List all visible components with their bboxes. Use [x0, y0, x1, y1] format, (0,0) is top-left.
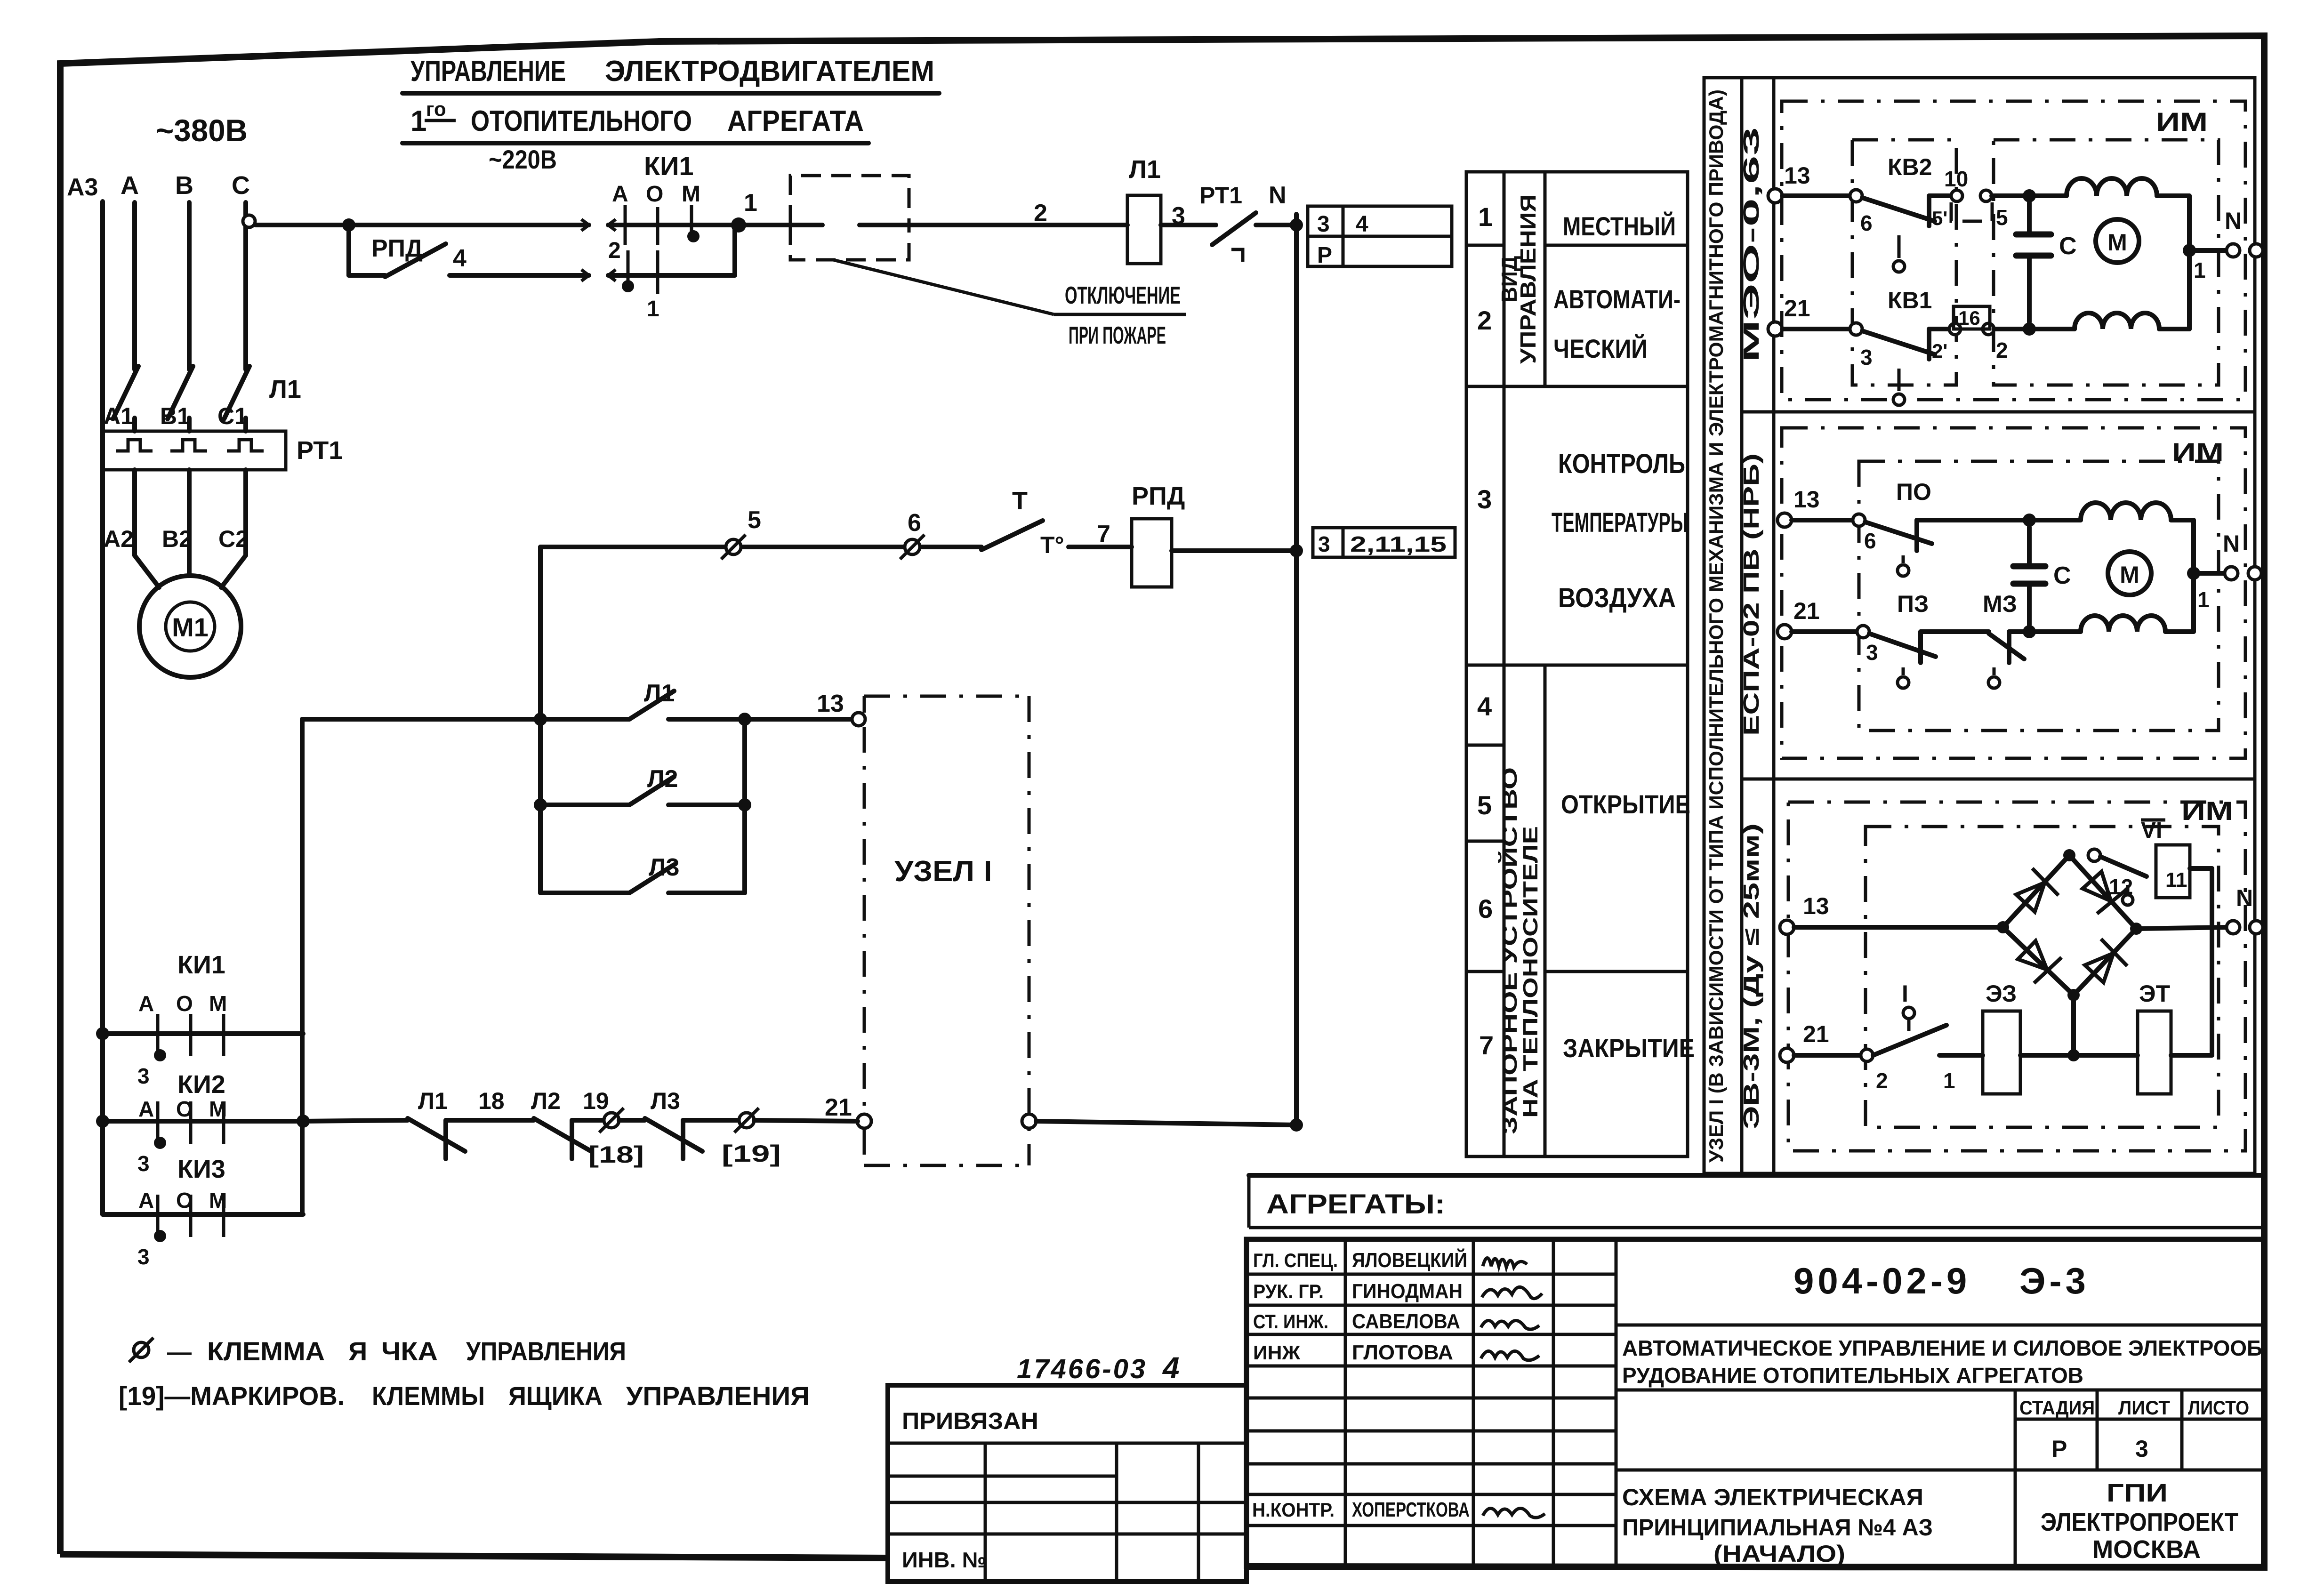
svg-text:ПРИ ПОЖАРЕ: ПРИ ПОЖАРЕ — [1069, 322, 1166, 349]
svg-text:Л3: Л3 — [651, 1088, 680, 1114]
svg-text:1: 1 — [2197, 587, 2210, 612]
svg-text:ЧЕСКИЙ: ЧЕСКИЙ — [1553, 334, 1648, 363]
svg-text:904-02-9: 904-02-9 — [1793, 1260, 1970, 1301]
svg-text:4: 4 — [1162, 1351, 1180, 1385]
svg-text:В2: В2 — [162, 526, 192, 552]
svg-text:(НАЧАЛО): (НАЧАЛО) — [1713, 1541, 1845, 1567]
svg-text:КИ3: КИ3 — [177, 1155, 225, 1183]
svg-text:2: 2 — [1477, 305, 1492, 335]
svg-text:УПРАВЛЕНИЯ: УПРАВЛЕНИЯ — [466, 1336, 626, 1366]
svg-text:ОТКРЫТИЕ: ОТКРЫТИЕ — [1561, 789, 1690, 819]
svg-text:4: 4 — [1356, 212, 1368, 237]
svg-text:21: 21 — [1793, 598, 1820, 624]
svg-text:5: 5 — [1996, 205, 2008, 230]
svg-text:2: 2 — [1876, 1068, 1888, 1093]
svg-text:ЛИСТО: ЛИСТО — [2188, 1397, 2249, 1419]
svg-text:3: 3 — [137, 1245, 150, 1269]
svg-text:УПРАВЛЕНИЕ: УПРАВЛЕНИЕ — [410, 55, 566, 88]
svg-text:N: N — [2236, 885, 2253, 911]
svg-text:Р: Р — [1317, 243, 1332, 268]
svg-text:КОНТРОЛЬ: КОНТРОЛЬ — [1558, 449, 1685, 479]
svg-text:13: 13 — [1793, 486, 1820, 513]
svg-text:ИМ: ИМ — [2181, 796, 2233, 826]
svg-text:го: го — [426, 98, 446, 120]
svg-text:Л1: Л1 — [269, 375, 301, 403]
svg-text:МЕСТНЫЙ: МЕСТНЫЙ — [1563, 211, 1676, 241]
svg-text:7: 7 — [1097, 521, 1110, 548]
svg-text:1: 1 — [744, 189, 757, 217]
svg-text:1: 1 — [2194, 258, 2206, 282]
svg-text:2,11,15: 2,11,15 — [1350, 532, 1447, 556]
svg-text:—: — — [167, 1339, 192, 1366]
svg-text:АГРЕГАТЫ:: АГРЕГАТЫ: — [1266, 1189, 1445, 1220]
svg-text:3: 3 — [2135, 1436, 2148, 1462]
svg-text:С: С — [232, 171, 250, 200]
svg-text:С2: С2 — [218, 526, 249, 552]
svg-text:А: А — [138, 1097, 154, 1121]
svg-text:КИ2: КИ2 — [177, 1070, 225, 1099]
svg-text:Т: Т — [1012, 487, 1028, 515]
svg-text:10: 10 — [1944, 167, 1968, 191]
svg-text:[19]—МАРКИРОВ.: [19]—МАРКИРОВ. — [119, 1381, 345, 1411]
svg-text:2: 2 — [1996, 338, 2008, 362]
svg-text:УЗЕЛ I (В ЗАВИСИМОСТИ ОТ ТИПА: УЗЕЛ I (В ЗАВИСИМОСТИ ОТ ТИПА ИСПОЛНИТЕЛ… — [1705, 89, 1727, 1163]
svg-text:А: А — [121, 171, 139, 200]
svg-text:5': 5' — [1932, 207, 1947, 229]
svg-text:4: 4 — [453, 245, 466, 272]
svg-text:ГПИ: ГПИ — [2107, 1479, 2168, 1507]
svg-text:6: 6 — [1860, 211, 1873, 235]
svg-text:М: М — [682, 182, 700, 207]
svg-text:КВ1: КВ1 — [1888, 287, 1932, 313]
svg-text:11: 11 — [2165, 868, 2187, 891]
svg-text:~380В: ~380В — [156, 113, 248, 148]
svg-text:I: I — [1902, 980, 1908, 1007]
svg-text:Л1: Л1 — [1129, 155, 1161, 184]
svg-text:ЗАКРЫТИЕ: ЗАКРЫТИЕ — [1563, 1033, 1695, 1063]
svg-text:О: О — [176, 991, 193, 1016]
svg-text:Я: Я — [348, 1336, 367, 1366]
svg-text:МЗ: МЗ — [1983, 591, 2017, 617]
svg-text:АГРЕГАТА: АГРЕГАТА — [727, 105, 864, 137]
svg-text:УПРАВЛЕНИЯ: УПРАВЛЕНИЯ — [1516, 194, 1540, 364]
svg-text:5: 5 — [1477, 790, 1492, 820]
svg-text:ХОПЕРСТКОВА: ХОПЕРСТКОВА — [1352, 1498, 1470, 1521]
svg-text:КВ2: КВ2 — [1888, 154, 1932, 180]
svg-text:УЗЕЛ: УЗЕЛ — [894, 855, 974, 888]
svg-text:РТ1: РТ1 — [297, 436, 343, 465]
svg-text:А: А — [138, 1188, 154, 1213]
svg-text:С: С — [2053, 562, 2071, 589]
svg-text:М: М — [209, 991, 227, 1016]
svg-text:2: 2 — [1034, 200, 1047, 227]
svg-text:ЗАПОРНОЕ УСТРОЙСТВО: ЗАПОРНОЕ УСТРОЙСТВО — [1497, 767, 1521, 1134]
svg-text:Э-3: Э-3 — [2019, 1260, 2090, 1301]
svg-text:АВТОМАТИЧЕСКОЕ УПРАВЛЕНИЕ И СИ: АВТОМАТИЧЕСКОЕ УПРАВЛЕНИЕ И СИЛОВОЕ ЭЛЕК… — [1622, 1336, 2262, 1360]
svg-text:3: 3 — [1317, 212, 1330, 237]
svg-text:КИ1: КИ1 — [177, 951, 225, 979]
svg-text:С1: С1 — [217, 403, 248, 429]
svg-text:[18]: [18] — [588, 1141, 644, 1168]
svg-text:17466-03: 17466-03 — [1017, 1354, 1147, 1384]
svg-text:ГИНОДМАН: ГИНОДМАН — [1352, 1280, 1463, 1303]
svg-text:ПРИНЦИПИАЛЬНАЯ №4 АЗ: ПРИНЦИПИАЛЬНАЯ №4 АЗ — [1622, 1514, 1933, 1541]
svg-text:[19]: [19] — [722, 1140, 781, 1167]
svg-text:Л1: Л1 — [418, 1088, 448, 1114]
svg-text:3: 3 — [1866, 640, 1878, 665]
svg-text:3: 3 — [137, 1151, 150, 1176]
svg-text:ЭТ: ЭТ — [2139, 980, 2170, 1007]
svg-text:РПД: РПД — [1132, 482, 1185, 510]
svg-text:2': 2' — [1932, 340, 1947, 362]
svg-text:ИНВ. №: ИНВ. № — [902, 1548, 987, 1572]
svg-text:ЯЛОВЕЦКИЙ: ЯЛОВЕЦКИЙ — [1352, 1248, 1467, 1272]
svg-text:КЛЕММЫ: КЛЕММЫ — [372, 1381, 485, 1411]
svg-text:19: 19 — [583, 1088, 609, 1114]
svg-text:СХЕМА ЭЛЕКТРИЧЕСКАЯ: СХЕМА ЭЛЕКТРИЧЕСКАЯ — [1622, 1484, 1923, 1510]
svg-text:~220В: ~220В — [489, 145, 557, 174]
svg-text:3: 3 — [1860, 345, 1873, 369]
svg-text:ЭВ-3М, (Ду ≤ 25мм): ЭВ-3М, (Ду ≤ 25мм) — [1739, 823, 1763, 1129]
svg-text:1: 1 — [1478, 202, 1493, 232]
svg-text:ТЕМПЕРАТУРЫ: ТЕМПЕРАТУРЫ — [1552, 507, 1688, 538]
svg-text:4: 4 — [1477, 691, 1492, 721]
svg-text:I: I — [984, 855, 992, 888]
svg-text:В: В — [175, 171, 193, 200]
svg-text:ИНЖ: ИНЖ — [1253, 1341, 1301, 1364]
svg-text:РУК. ГР.: РУК. ГР. — [1253, 1280, 1324, 1302]
svg-text:16: 16 — [1958, 307, 1980, 329]
svg-text:СТАДИЯ: СТАДИЯ — [2019, 1397, 2095, 1419]
svg-text:21: 21 — [1803, 1021, 1829, 1047]
svg-text:Л2: Л2 — [531, 1088, 561, 1114]
svg-text:А1: А1 — [104, 403, 134, 429]
svg-text:6: 6 — [1478, 894, 1493, 923]
svg-text:13: 13 — [817, 690, 844, 717]
svg-text:А: А — [138, 991, 154, 1016]
svg-text:О: О — [646, 182, 663, 207]
svg-text:А: А — [612, 182, 628, 207]
svg-text:М: М — [2120, 562, 2139, 588]
svg-text:3: 3 — [1477, 484, 1492, 514]
svg-text:А2: А2 — [104, 526, 134, 552]
svg-text:В1: В1 — [160, 403, 190, 429]
svg-text:ГЛОТОВА: ГЛОТОВА — [1352, 1341, 1453, 1364]
svg-text:ВОЗДУХА: ВОЗДУХА — [1558, 583, 1676, 613]
svg-text:3: 3 — [137, 1064, 150, 1088]
svg-text:Л2: Л2 — [647, 765, 678, 793]
svg-text:ЛИСТ: ЛИСТ — [2118, 1397, 2170, 1419]
svg-text:ЧКА: ЧКА — [381, 1336, 438, 1366]
svg-text:М: М — [2107, 229, 2127, 256]
svg-text:N: N — [2225, 208, 2242, 234]
svg-text:N: N — [2223, 530, 2240, 557]
svg-text:21: 21 — [825, 1094, 852, 1121]
svg-text:ИМ: ИМ — [2156, 107, 2208, 137]
svg-text:ЭЛЕКТРОПРОЕКТ: ЭЛЕКТРОПРОЕКТ — [2041, 1508, 2238, 1536]
svg-text:7: 7 — [1479, 1030, 1494, 1060]
svg-text:ПРИВЯЗАН: ПРИВЯЗАН — [902, 1408, 1038, 1434]
svg-text:ГЛ. СПЕЦ.: ГЛ. СПЕЦ. — [1253, 1249, 1338, 1271]
svg-text:СТ. ИНЖ.: СТ. ИНЖ. — [1253, 1310, 1328, 1333]
svg-text:21: 21 — [1784, 295, 1810, 321]
svg-text:УПРАВЛЕНИЯ: УПРАВЛЕНИЯ — [626, 1381, 810, 1411]
svg-text:ПО: ПО — [1896, 479, 1931, 505]
svg-text:Т°: Т° — [1040, 532, 1064, 558]
svg-text:3: 3 — [1318, 532, 1330, 556]
svg-text:5: 5 — [748, 506, 761, 534]
svg-text:РТ1: РТ1 — [1199, 182, 1242, 209]
svg-text:МОСКВА: МОСКВА — [2092, 1535, 2201, 1564]
svg-text:ЯЩИКА: ЯЩИКА — [508, 1381, 603, 1411]
svg-text:1: 1 — [410, 105, 426, 137]
svg-text:1: 1 — [1943, 1068, 1955, 1093]
svg-text:ЕСПА-02 ПВ (НРБ): ЕСПА-02 ПВ (НРБ) — [1739, 453, 1763, 736]
svg-text:А3: А3 — [67, 174, 98, 201]
svg-text:ОТКЛЮЧЕНИЕ: ОТКЛЮЧЕНИЕ — [1065, 282, 1181, 309]
svg-text:1: 1 — [647, 297, 659, 321]
svg-text:Н.КОНТР.: Н.КОНТР. — [1252, 1499, 1335, 1521]
svg-text:13: 13 — [1784, 162, 1810, 189]
svg-text:6: 6 — [1864, 529, 1876, 553]
svg-text:НА ТЕПЛОНОСИТЕЛЕ: НА ТЕПЛОНОСИТЕЛЕ — [1519, 826, 1542, 1118]
svg-text:АВТОМАТИ-: АВТОМАТИ- — [1553, 284, 1681, 314]
svg-text:N: N — [1269, 182, 1287, 209]
svg-text:13: 13 — [1803, 893, 1829, 919]
svg-text:РПД: РПД — [371, 235, 423, 262]
svg-text:САВЕЛОВА: САВЕЛОВА — [1352, 1310, 1460, 1333]
svg-text:Л1: Л1 — [644, 680, 675, 707]
svg-text:Р: Р — [2051, 1436, 2067, 1462]
svg-text:ЭЗ: ЭЗ — [1986, 980, 2017, 1007]
svg-text:Л3: Л3 — [649, 854, 679, 881]
svg-text:МЭО-0,63: МЭО-0,63 — [1739, 127, 1763, 362]
svg-text:РУДОВАНИЕ ОТОПИТЕЛЬНЫХ АГРЕГАТ: РУДОВАНИЕ ОТОПИТЕЛЬНЫХ АГРЕГАТОВ — [1622, 1363, 2083, 1388]
svg-text:С: С — [2059, 233, 2077, 260]
svg-text:ПЗ: ПЗ — [1897, 591, 1929, 617]
svg-text:М1: М1 — [172, 612, 209, 642]
svg-text:18: 18 — [478, 1088, 505, 1114]
svg-text:ОТОПИТЕЛЬНОГО: ОТОПИТЕЛЬНОГО — [471, 105, 692, 137]
svg-text:VI: VI — [2141, 818, 2162, 843]
svg-text:6: 6 — [908, 509, 921, 537]
svg-text:2: 2 — [608, 238, 621, 263]
svg-text:ЭЛЕКТРОДВИГАТЕЛЕМ: ЭЛЕКТРОДВИГАТЕЛЕМ — [605, 55, 934, 88]
svg-text:КЛЕММА: КЛЕММА — [207, 1336, 325, 1366]
svg-text:КИ1: КИ1 — [644, 151, 694, 181]
